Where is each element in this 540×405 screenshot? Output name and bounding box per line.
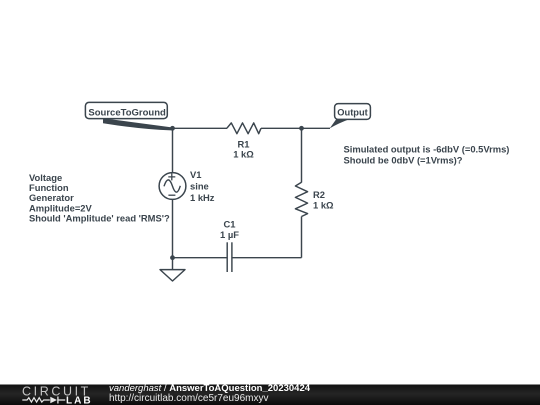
capacitor C1 (227, 242, 232, 272)
wire: V1 bottom pin to ground junction (172, 200, 174, 258)
junction dot: node A (170, 126, 175, 131)
wire: node B to Output flag tip (302, 127, 331, 129)
annotation: simulated output note (344, 144, 510, 166)
wire: node A to R1 left lead (173, 127, 228, 129)
annotation: voltage function generator note (29, 172, 170, 223)
svg-text:Simulated output is -6dbV (=0.: Simulated output is -6dbV (=0.5Vrms) (344, 144, 510, 155)
svg-text:R2: R2 (313, 189, 325, 200)
footer bar (0, 385, 540, 405)
svg-text:C1: C1 (224, 219, 236, 230)
net flag SourceToGround (85, 102, 173, 130)
wire: node B down to R2 top lead (301, 128, 303, 182)
CircuitLab logo (22, 385, 93, 405)
wire: ground node to C1 left plate (173, 257, 228, 259)
resistor R2 zigzag (295, 182, 307, 216)
svg-text:R1: R1 (238, 138, 250, 149)
svg-text:SourceToGround: SourceToGround (88, 108, 166, 119)
svg-text:1 kΩ: 1 kΩ (313, 200, 334, 211)
svg-text:http://circuitlab.com/ce5r7eu9: http://circuitlab.com/ce5r7eu96mxyv (109, 393, 269, 404)
svg-text:1 kΩ: 1 kΩ (233, 149, 254, 160)
svg-text:1 kHz: 1 kHz (190, 192, 215, 203)
net flag Output (330, 104, 371, 129)
ground symbol (160, 258, 185, 281)
svg-text:sine: sine (190, 180, 209, 191)
junction dot: node B (299, 126, 304, 131)
wire: R2 bottom lead to bottom rail (301, 217, 303, 258)
wire: R1 right lead to node B (261, 127, 302, 129)
voltage source V1 (159, 173, 186, 200)
junction dot: ground node (170, 255, 175, 260)
wire: C1 right plate to right rail corner (232, 257, 302, 259)
svg-text:LAB: LAB (66, 395, 93, 405)
svg-text:Should be 0dbV (=1Vrms)?: Should be 0dbV (=1Vrms)? (344, 154, 463, 165)
svg-text:1 µF: 1 µF (220, 229, 239, 240)
svg-text:V1: V1 (190, 169, 201, 180)
resistor R1 zigzag (227, 123, 261, 134)
svg-text:Output: Output (337, 108, 367, 118)
svg-text:Should 'Amplitude' read 'RMS'?: Should 'Amplitude' read 'RMS'? (29, 212, 170, 223)
footer credits (109, 383, 311, 404)
wire: node A down to V1 top pin (172, 128, 174, 172)
